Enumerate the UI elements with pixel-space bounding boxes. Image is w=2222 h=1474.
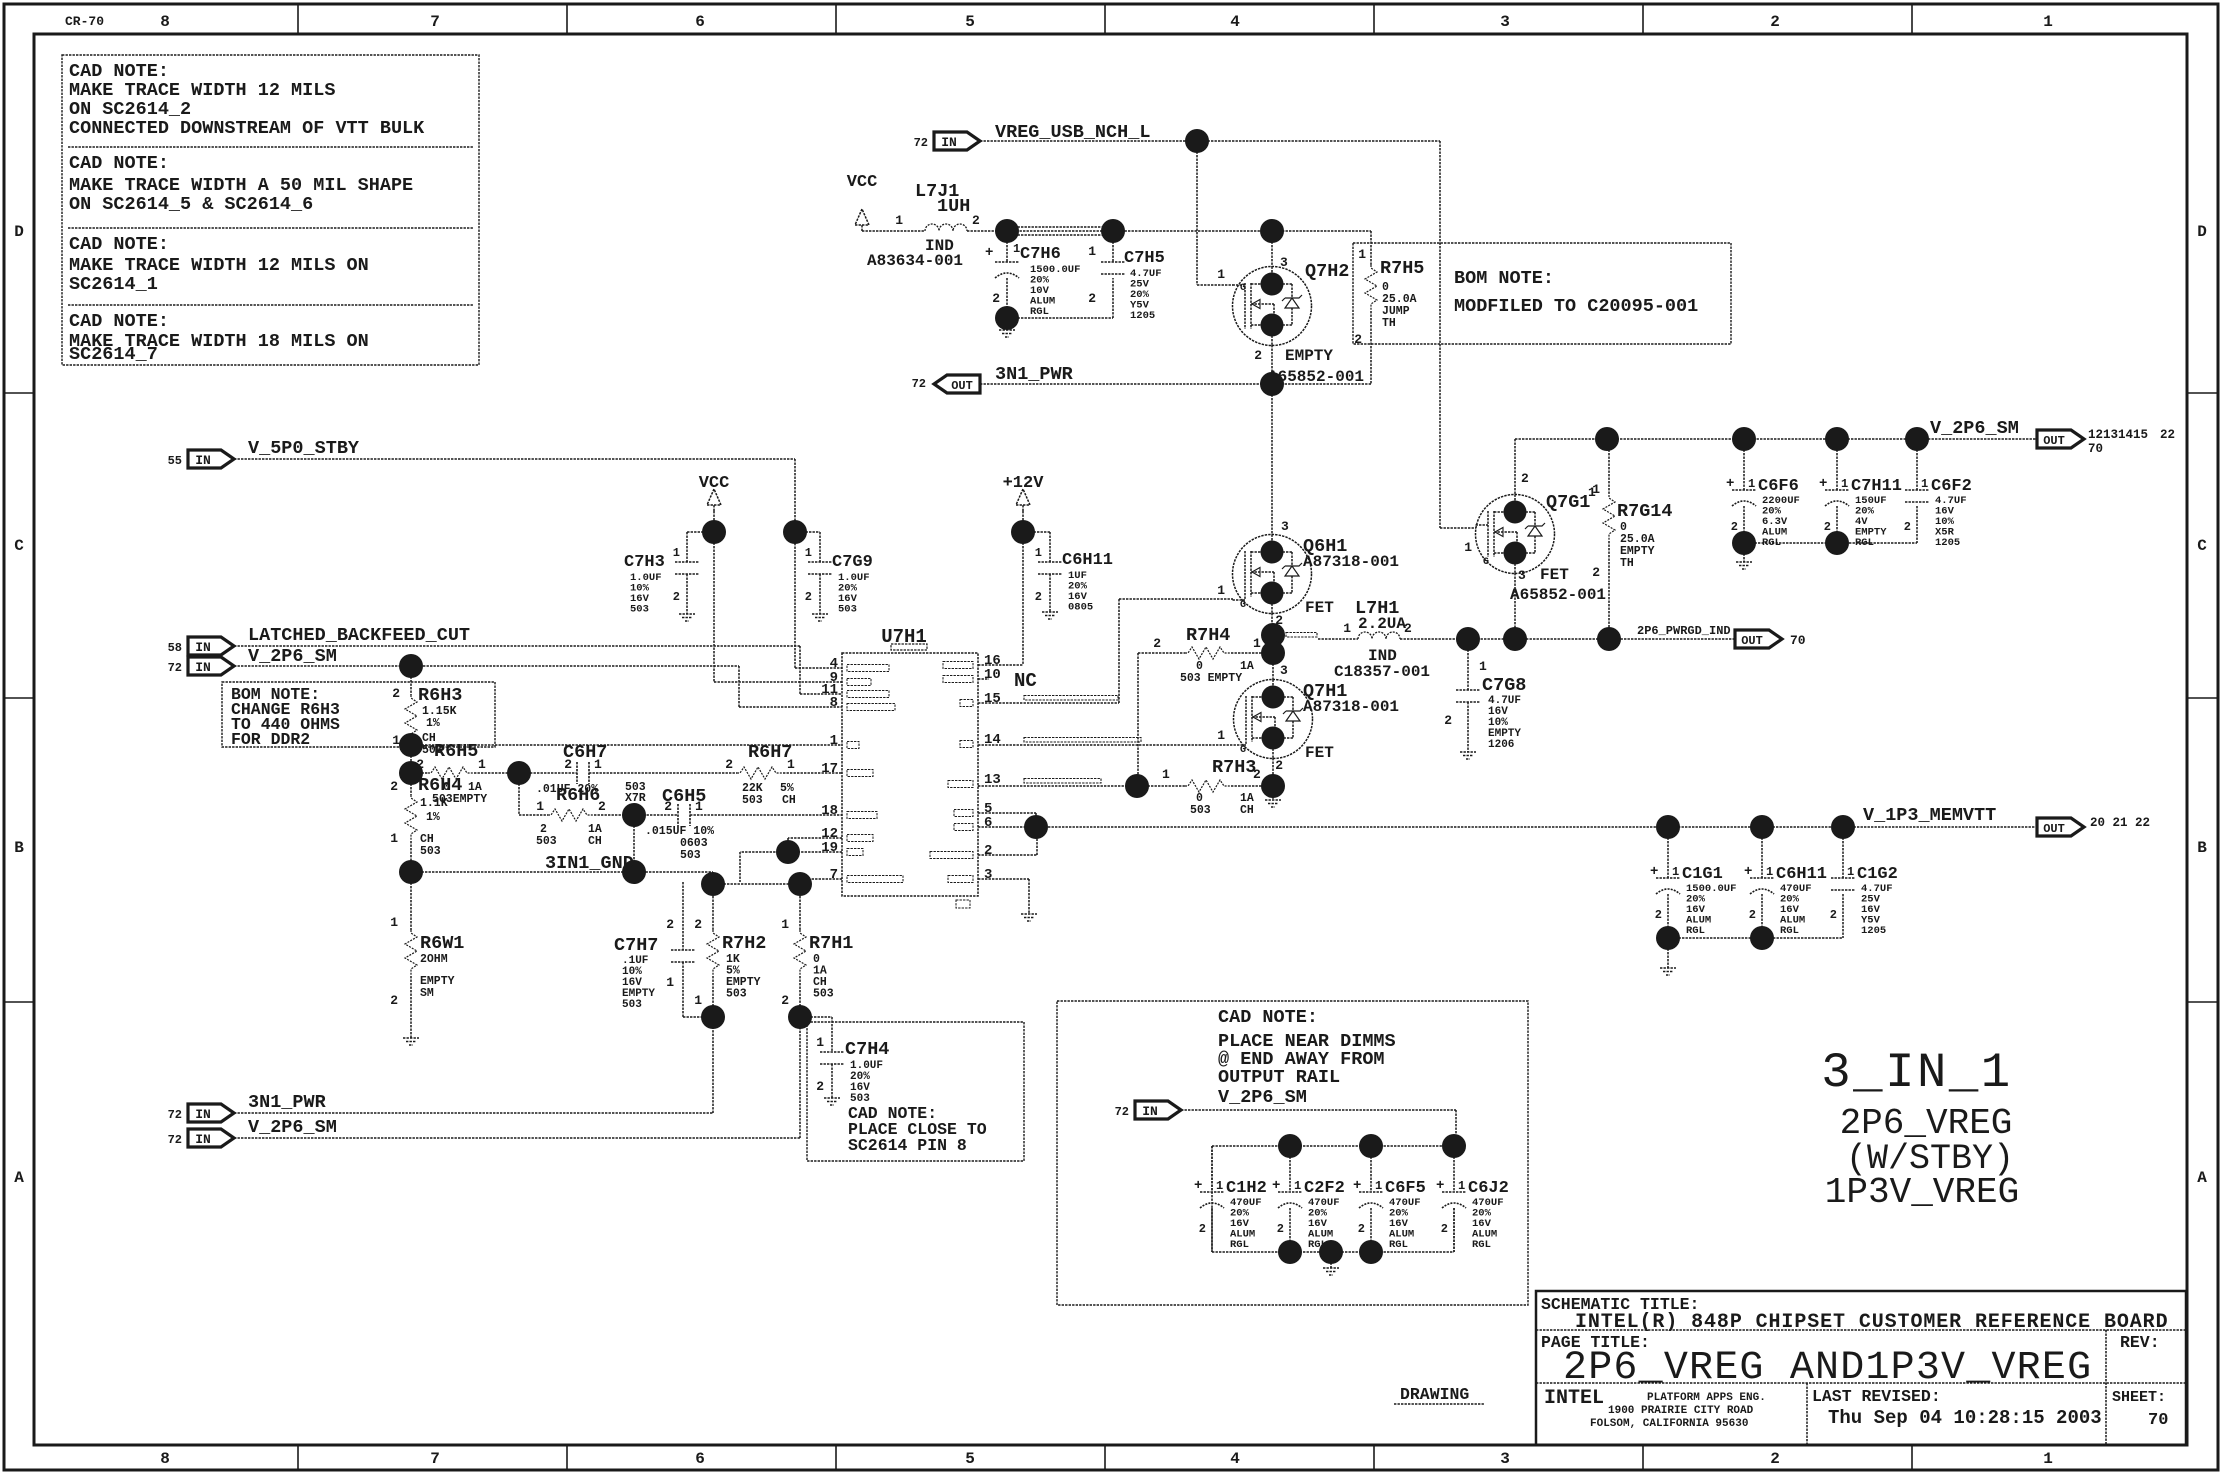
svg-text:2: 2 [390, 779, 398, 794]
svg-text:V_2P6_SM: V_2P6_SM [1930, 418, 2019, 439]
svg-text:MAKE TRACE WIDTH 12 MILS ON: MAKE TRACE WIDTH 12 MILS ON [69, 255, 369, 276]
svg-text:2: 2 [992, 291, 1000, 306]
svg-text:OUT: OUT [1741, 634, 1763, 648]
svg-text:OUTPUT RAIL: OUTPUT RAIL [1218, 1067, 1340, 1088]
svg-text:A: A [2197, 1169, 2207, 1187]
svg-text:RGL: RGL [1780, 925, 1799, 937]
svg-text:RGL: RGL [1686, 925, 1705, 937]
svg-text:1: 1 [392, 733, 400, 748]
svg-text:SC2614_7: SC2614_7 [69, 344, 158, 365]
svg-text:G: G [1240, 600, 1246, 611]
svg-text:503: 503 [630, 604, 649, 616]
svg-text:0805: 0805 [1068, 602, 1093, 614]
svg-text:C6F2: C6F2 [1931, 477, 1972, 496]
svg-text:1: 1 [1217, 583, 1225, 598]
svg-text:3_IN_1: 3_IN_1 [1821, 1045, 2012, 1101]
svg-text:1: 1 [2043, 1450, 2053, 1468]
svg-text:2: 2 [392, 686, 400, 701]
svg-text:MAKE TRACE WIDTH A 50 MIL SHAP: MAKE TRACE WIDTH A 50 MIL SHAPE [69, 175, 413, 196]
svg-text:C6J2: C6J2 [1468, 1179, 1509, 1198]
svg-text:2: 2 [1275, 758, 1283, 773]
svg-text:2: 2 [1904, 520, 1911, 534]
svg-text:2P6_VREG AND1P3V_VREG: 2P6_VREG AND1P3V_VREG [1563, 1346, 2092, 1391]
svg-text:VCC: VCC [847, 173, 878, 192]
svg-text:R7G14: R7G14 [1617, 501, 1673, 522]
svg-text:7: 7 [430, 1450, 440, 1468]
svg-text:A87318-001: A87318-001 [1303, 698, 1399, 716]
svg-text:2: 2 [1444, 713, 1452, 728]
svg-text:2: 2 [816, 1079, 824, 1094]
svg-text:4: 4 [1230, 13, 1240, 31]
svg-text:2: 2 [1830, 908, 1837, 922]
svg-text:Thu Sep 04 10:28:15 2003: Thu Sep 04 10:28:15 2003 [1828, 1407, 2102, 1429]
svg-text:OUT: OUT [951, 379, 973, 393]
svg-text:6: 6 [984, 815, 992, 831]
svg-text:3: 3 [984, 867, 992, 883]
svg-text:2: 2 [1592, 565, 1600, 580]
svg-text:G: G [1240, 283, 1246, 294]
svg-text:1: 1 [1162, 767, 1170, 782]
svg-text:+: + [985, 245, 993, 261]
svg-text:7: 7 [830, 867, 838, 883]
svg-text:R6H7: R6H7 [748, 742, 792, 763]
svg-text:5: 5 [965, 13, 975, 31]
svg-text:2: 2 [1358, 1222, 1365, 1236]
svg-text:2: 2 [1153, 636, 1161, 651]
svg-text:3IN1_GND: 3IN1_GND [545, 853, 634, 874]
svg-text:V_1P3_MEMVTT: V_1P3_MEMVTT [1863, 805, 1996, 826]
svg-text:NC: NC [1014, 670, 1037, 692]
svg-text:22: 22 [2160, 428, 2175, 442]
svg-text:15: 15 [984, 691, 1001, 707]
svg-text:A: A [14, 1169, 24, 1187]
svg-text:FET: FET [1540, 566, 1569, 584]
svg-text:72: 72 [1115, 1105, 1129, 1119]
svg-text:1: 1 [1841, 477, 1848, 491]
svg-text:R6H3: R6H3 [418, 685, 462, 706]
svg-text:2: 2 [1354, 332, 1362, 347]
svg-text:CR-70: CR-70 [65, 14, 104, 29]
svg-text:2: 2 [666, 917, 674, 932]
svg-text:TH: TH [1620, 557, 1634, 570]
svg-text:503: 503 [726, 988, 747, 1001]
svg-text:8: 8 [160, 13, 170, 31]
svg-text:IN: IN [195, 1132, 211, 1147]
svg-text:1900 PRAIRIE CITY ROAD: 1900 PRAIRIE CITY ROAD [1608, 1405, 1754, 1417]
svg-text:SC2614_1: SC2614_1 [69, 274, 158, 295]
svg-text:R7H4: R7H4 [1186, 625, 1230, 646]
svg-text:2: 2 [805, 590, 812, 604]
svg-text:6: 6 [695, 13, 705, 31]
svg-text:G: G [1240, 745, 1246, 756]
svg-text:1: 1 [1217, 728, 1225, 743]
svg-text:CH: CH [588, 835, 602, 848]
svg-text:R7H3: R7H3 [1212, 757, 1256, 778]
svg-text:V_2P6_SM: V_2P6_SM [1218, 1087, 1307, 1108]
svg-text:C7G8: C7G8 [1482, 675, 1526, 696]
svg-text:70: 70 [2148, 1411, 2168, 1430]
svg-text:C1G2: C1G2 [1857, 865, 1898, 884]
svg-text:72: 72 [914, 136, 928, 150]
svg-text:503: 503 [420, 845, 441, 858]
svg-text:8: 8 [160, 1450, 170, 1468]
svg-text:C7H7: C7H7 [614, 935, 658, 956]
svg-text:+12V: +12V [1003, 474, 1045, 493]
svg-text:G: G [1483, 557, 1489, 568]
svg-text:1: 1 [830, 733, 838, 749]
svg-text:INTEL: INTEL [1544, 1387, 1604, 1410]
svg-text:R6W1: R6W1 [420, 933, 464, 954]
svg-text:V_2P6_SM: V_2P6_SM [248, 1117, 337, 1138]
svg-text:72: 72 [168, 1108, 182, 1122]
svg-text:1: 1 [1217, 267, 1225, 282]
svg-text:X7R: X7R [625, 792, 646, 805]
svg-text:2: 2 [390, 993, 398, 1008]
svg-text:CAD NOTE:: CAD NOTE: [69, 311, 169, 332]
svg-text:20 21 22: 20 21 22 [2090, 816, 2150, 830]
svg-text:72: 72 [912, 377, 926, 391]
svg-text:2: 2 [1277, 1222, 1284, 1236]
svg-text:2: 2 [664, 799, 672, 814]
svg-text:2: 2 [1749, 908, 1756, 922]
svg-text:1: 1 [1375, 1179, 1382, 1193]
svg-text:PLATFORM APPS ENG.: PLATFORM APPS ENG. [1647, 1392, 1766, 1404]
svg-text:VCC: VCC [699, 474, 730, 493]
svg-text:MAKE TRACE WIDTH 12 MILS: MAKE TRACE WIDTH 12 MILS [69, 80, 335, 101]
svg-text:3: 3 [1518, 568, 1526, 583]
svg-text:1: 1 [478, 757, 486, 772]
svg-text:1205: 1205 [1861, 925, 1886, 937]
svg-text:A83634-001: A83634-001 [867, 252, 963, 270]
svg-text:C6F6: C6F6 [1758, 477, 1799, 496]
svg-text:IN: IN [941, 135, 957, 150]
svg-text:1: 1 [1035, 546, 1042, 560]
svg-text:C1H2: C1H2 [1226, 1179, 1267, 1198]
svg-text:D: D [14, 223, 24, 241]
svg-text:BOM NOTE:: BOM NOTE: [1454, 268, 1554, 289]
svg-text:2: 2 [564, 757, 572, 772]
svg-text:58: 58 [168, 641, 182, 655]
svg-text:1: 1 [1847, 865, 1854, 879]
svg-text:1UH: 1UH [937, 196, 970, 217]
svg-text:LATCHED_BACKFEED_CUT: LATCHED_BACKFEED_CUT [248, 625, 470, 646]
svg-text:U7H1: U7H1 [881, 626, 927, 648]
svg-text:D: D [2197, 223, 2207, 241]
svg-text:C7H3: C7H3 [624, 553, 665, 572]
svg-text:2: 2 [1035, 590, 1042, 604]
svg-text:C6F5: C6F5 [1385, 1179, 1426, 1198]
svg-text:3N1_PWR: 3N1_PWR [248, 1092, 327, 1113]
svg-text:503: 503 [850, 1093, 870, 1105]
svg-text:CH: CH [1240, 804, 1254, 817]
svg-text:1.1K: 1.1K [420, 797, 448, 810]
svg-text:70: 70 [1790, 633, 1806, 648]
svg-text:R6H5: R6H5 [434, 741, 478, 762]
svg-text:V_2P6_SM: V_2P6_SM [248, 646, 337, 667]
svg-text:CAD NOTE:: CAD NOTE: [69, 61, 169, 82]
svg-text:17: 17 [821, 761, 838, 777]
svg-text:2: 2 [673, 590, 680, 604]
svg-text:REV:: REV: [2120, 1333, 2160, 1352]
svg-text:SM: SM [420, 987, 434, 1000]
svg-text:CAD NOTE:: CAD NOTE: [69, 153, 169, 174]
svg-text:R7H5: R7H5 [1380, 258, 1424, 279]
svg-text:1: 1 [1253, 636, 1261, 651]
svg-text:1: 1 [1088, 244, 1096, 259]
svg-text:503: 503 [622, 999, 642, 1011]
svg-text:2: 2 [1088, 291, 1096, 306]
svg-text:3N1_PWR: 3N1_PWR [995, 364, 1074, 385]
svg-text:CAD NOTE:: CAD NOTE: [69, 234, 169, 255]
svg-text:3: 3 [1280, 663, 1288, 678]
svg-text:C7H6: C7H6 [1020, 245, 1061, 264]
svg-text:503: 503 [536, 835, 557, 848]
svg-text:2: 2 [1199, 1222, 1206, 1236]
svg-text:C2F2: C2F2 [1304, 1179, 1345, 1198]
svg-text:IN: IN [195, 1107, 211, 1122]
svg-text:ON SC2614_5 & SC2614_6: ON SC2614_5 & SC2614_6 [69, 194, 313, 215]
svg-text:1: 1 [390, 915, 398, 930]
svg-text:2OHM: 2OHM [420, 953, 448, 966]
svg-text:CAD NOTE:: CAD NOTE: [1218, 1007, 1318, 1028]
svg-text:TH: TH [1382, 317, 1396, 330]
svg-text:2: 2 [725, 757, 733, 772]
svg-text:B: B [14, 839, 24, 857]
svg-text:2: 2 [1770, 1450, 1780, 1468]
svg-text:1: 1 [1464, 540, 1472, 555]
svg-text:55: 55 [168, 454, 182, 468]
svg-text:3: 3 [1500, 1450, 1510, 1468]
svg-text:1%: 1% [426, 811, 440, 824]
svg-text:1: 1 [1479, 659, 1487, 674]
svg-text:C18357-001: C18357-001 [1334, 663, 1430, 681]
svg-text:503: 503 [1190, 804, 1211, 817]
svg-text:12131415: 12131415 [2088, 428, 2148, 442]
svg-text:1: 1 [695, 799, 703, 814]
svg-text:503 EMPTY: 503 EMPTY [1180, 672, 1242, 685]
svg-text:1: 1 [536, 799, 544, 814]
svg-text:FET: FET [1305, 744, 1334, 762]
svg-text:3: 3 [1281, 519, 1289, 534]
svg-text:1: 1 [895, 213, 903, 228]
svg-text:7: 7 [430, 13, 440, 31]
svg-text:2: 2 [1655, 908, 1662, 922]
svg-text:A65852-001: A65852-001 [1268, 368, 1364, 386]
svg-text:EMPTY: EMPTY [1285, 347, 1333, 365]
svg-text:INTEL(R) 848P CHIPSET CUSTOMER: INTEL(R) 848P CHIPSET CUSTOMER REFERENCE… [1575, 1311, 2169, 1334]
svg-text:1: 1 [1672, 865, 1679, 879]
svg-text:72: 72 [168, 1133, 182, 1147]
svg-text:1: 1 [805, 546, 812, 560]
svg-text:2: 2 [598, 799, 606, 814]
svg-text:1: 1 [1766, 865, 1773, 879]
svg-text:1: 1 [787, 757, 795, 772]
svg-text:1: 1 [390, 831, 398, 846]
svg-text:LAST REVISED:: LAST REVISED: [1812, 1387, 1941, 1406]
svg-text:2: 2 [984, 843, 992, 859]
svg-text:IN: IN [195, 660, 211, 675]
svg-text:IN: IN [195, 453, 211, 468]
svg-text:VREG_USB_NCH_L: VREG_USB_NCH_L [995, 122, 1150, 143]
svg-text:1: 1 [594, 757, 602, 772]
svg-text:19: 19 [821, 840, 838, 856]
svg-text:1P3V_VREG: 1P3V_VREG [1825, 1172, 2019, 1213]
svg-text:5: 5 [965, 1450, 975, 1468]
svg-text:72: 72 [168, 661, 182, 675]
svg-text:DRAWING: DRAWING [1400, 1385, 1469, 1404]
svg-text:2: 2 [1731, 520, 1738, 534]
svg-text:1: 1 [694, 993, 702, 1008]
svg-text:IN: IN [1142, 1104, 1158, 1119]
svg-text:B: B [2197, 839, 2207, 857]
svg-text:1: 1 [1294, 1179, 1301, 1193]
svg-text:1: 1 [1343, 621, 1351, 636]
svg-text:1: 1 [666, 975, 674, 990]
svg-text:2: 2 [781, 993, 789, 1008]
svg-text:1: 1 [1458, 1179, 1465, 1193]
svg-text:1: 1 [781, 917, 789, 932]
svg-text:CH: CH [782, 794, 796, 807]
svg-text:Q7G1: Q7G1 [1546, 492, 1590, 513]
svg-text:8: 8 [830, 695, 838, 711]
svg-text:1%: 1% [426, 717, 440, 730]
svg-text:RGL: RGL [1762, 537, 1781, 549]
svg-text:C7H4: C7H4 [845, 1039, 889, 1060]
svg-text:C7H11: C7H11 [1851, 477, 1902, 496]
svg-text:1: 1 [1216, 1179, 1223, 1193]
svg-text:2: 2 [1521, 471, 1529, 486]
svg-text:2: 2 [1770, 13, 1780, 31]
svg-text:1: 1 [1358, 247, 1366, 262]
svg-text:SHEET:: SHEET: [2112, 1389, 2166, 1406]
svg-text:503: 503 [742, 794, 763, 807]
svg-text:2: 2 [1254, 348, 1262, 363]
svg-text:RGL: RGL [1030, 306, 1049, 318]
svg-text:SC2614 PIN 8: SC2614 PIN 8 [848, 1136, 967, 1155]
svg-text:IN: IN [195, 640, 211, 655]
svg-text:1: 1 [1748, 477, 1755, 491]
svg-text:C: C [14, 537, 24, 555]
svg-text:4: 4 [1230, 1450, 1240, 1468]
svg-text:503: 503 [838, 604, 857, 616]
svg-text:C: C [2197, 537, 2207, 555]
svg-text:C1G1: C1G1 [1682, 865, 1723, 884]
svg-text:C6H11: C6H11 [1062, 551, 1113, 570]
svg-text:FOLSOM, CALIFORNIA 95630: FOLSOM, CALIFORNIA 95630 [1590, 1418, 1748, 1430]
svg-text:2P6_VREG: 2P6_VREG [1840, 1103, 2013, 1144]
svg-text:R6H4: R6H4 [418, 775, 462, 796]
svg-text:RGL: RGL [1472, 1239, 1491, 1251]
svg-text:1205: 1205 [1935, 537, 1960, 549]
svg-text:2: 2 [1441, 1222, 1448, 1236]
svg-text:1: 1 [1921, 477, 1928, 491]
svg-text:C7H5: C7H5 [1124, 249, 1165, 268]
svg-text:2: 2 [1253, 767, 1261, 782]
svg-text:MODFILED TO C20095-001: MODFILED TO C20095-001 [1454, 296, 1698, 317]
svg-text:C6H11: C6H11 [1776, 865, 1827, 884]
svg-text:1205: 1205 [1130, 310, 1155, 322]
svg-text:1: 1 [2043, 13, 2053, 31]
svg-text:C7G9: C7G9 [832, 553, 873, 572]
svg-text:1: 1 [816, 1035, 824, 1050]
svg-text:OUT: OUT [2043, 434, 2065, 448]
svg-text:OUT: OUT [2043, 822, 2065, 836]
svg-text:ON SC2614_2: ON SC2614_2 [69, 99, 191, 120]
svg-text:R7H1: R7H1 [809, 933, 853, 954]
svg-text:503: 503 [813, 988, 834, 1001]
svg-text:RGL: RGL [1389, 1239, 1408, 1251]
svg-text:A65852-001: A65852-001 [1510, 586, 1606, 604]
svg-text:2: 2 [972, 213, 980, 228]
svg-text:2: 2 [694, 917, 702, 932]
svg-text:RGL: RGL [1230, 1239, 1249, 1251]
svg-text:FOR DDR2: FOR DDR2 [231, 730, 310, 749]
svg-text:FET: FET [1305, 599, 1334, 617]
svg-text:2.2UA: 2.2UA [1358, 615, 1406, 633]
svg-text:2: 2 [416, 757, 424, 772]
svg-text:1: 1 [673, 546, 680, 560]
svg-text:A87318-001: A87318-001 [1303, 553, 1399, 571]
svg-text:1: 1 [1592, 482, 1600, 497]
svg-text:6: 6 [695, 1450, 705, 1468]
svg-text:2P6_PWRGD_IND: 2P6_PWRGD_IND [1637, 624, 1731, 638]
svg-text:R6H6: R6H6 [556, 785, 600, 806]
svg-text:70: 70 [2088, 442, 2103, 456]
svg-text:CONNECTED DOWNSTREAM OF VTT BU: CONNECTED DOWNSTREAM OF VTT BULK [69, 118, 425, 139]
svg-text:R7H2: R7H2 [722, 933, 766, 954]
svg-text:3: 3 [1500, 13, 1510, 31]
svg-text:2: 2 [1824, 520, 1831, 534]
svg-text:V_5P0_STBY: V_5P0_STBY [248, 438, 360, 459]
svg-text:1206: 1206 [1488, 739, 1514, 751]
svg-text:18: 18 [821, 803, 838, 819]
svg-text:10: 10 [984, 667, 1001, 683]
svg-text:Q7H2: Q7H2 [1305, 261, 1349, 282]
svg-text:503: 503 [680, 849, 701, 862]
